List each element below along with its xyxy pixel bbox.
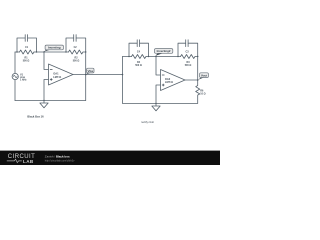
svg-text:Inverting2: Inverting2 (157, 49, 171, 53)
svg-text:htip://circuitlab.com/c6rb3v: htip://circuitlab.com/c6rb3v (45, 160, 75, 163)
watermark bar (0, 151, 220, 165)
wire output stage1 (73, 74, 123, 76)
svg-text:Vba: Vba (88, 69, 94, 73)
svg-text:Vout: Vout (201, 73, 207, 77)
svg-text:rectify ciruit: rectify ciruit (141, 121, 154, 124)
wire left rail stage2 (122, 57, 124, 104)
resistor R4 (132, 55, 146, 59)
svg-text:10 Ω: 10 Ω (200, 92, 205, 95)
label callout Vba (86, 68, 94, 74)
ground stage2 (155, 103, 157, 106)
svg-text:OA1: OA1 (53, 71, 59, 75)
wire node A2 to op-amp2 minus input (156, 57, 161, 76)
svg-text:500 Ω: 500 Ω (23, 60, 30, 63)
wire left rail stage1 (14, 52, 16, 101)
svg-text:Black Box 16: Black Box 16 (27, 115, 44, 119)
svg-text:Zanish / Black box: Zanish / Black box (45, 155, 70, 159)
wire bottom rail stage2 (123, 102, 198, 104)
capacitor C3 loop (178, 43, 198, 56)
wire output stage2 (185, 79, 198, 81)
wire row stage2 segments (123, 56, 198, 58)
wire node A to op-amp minus input (44, 52, 49, 70)
svg-text:500 Ω: 500 Ω (135, 64, 142, 67)
wire feedback vertical stage2 (197, 57, 199, 81)
voltage source V1 (12, 73, 18, 79)
wire feedback vertical stage1 (85, 52, 87, 101)
watermark text (45, 155, 75, 163)
svg-text:LAB: LAB (23, 159, 34, 164)
svg-text:500 Ω: 500 Ω (185, 64, 192, 67)
capacitor C1 loop (17, 38, 37, 52)
svg-text:500 Ω: 500 Ω (73, 60, 80, 63)
label callout Inverting2 (155, 49, 173, 56)
ground stage1 (43, 101, 45, 104)
svg-text:LM741: LM741 (165, 80, 174, 84)
op-amp OA2 (161, 70, 186, 91)
label callout Inverting (44, 45, 64, 52)
wire row stage1 segments (15, 51, 86, 53)
wire bottom rail stage1 (15, 100, 86, 102)
svg-text:LM741: LM741 (53, 75, 62, 79)
capacitor C2 loop (66, 38, 86, 52)
label callout Vout (198, 73, 209, 80)
capacitor C4 loop (129, 43, 149, 56)
resistor R3 (181, 55, 195, 59)
svg-text:1 kHz: 1 kHz (20, 79, 27, 82)
resistor R1 (20, 50, 35, 54)
wire op-amp2 plus input to ground rail (156, 85, 161, 103)
op-amp OA1 (49, 64, 74, 85)
component labels (23, 46, 192, 67)
svg-text:Inverting: Inverting (48, 46, 61, 50)
junction dots (16, 51, 198, 104)
svg-text:OA2: OA2 (165, 77, 171, 81)
resistor R6 vertical (196, 80, 200, 103)
wire op-amp plus input to ground rail (44, 80, 49, 101)
resistor R2 (69, 50, 84, 54)
logo CircuitLab (7, 154, 35, 164)
